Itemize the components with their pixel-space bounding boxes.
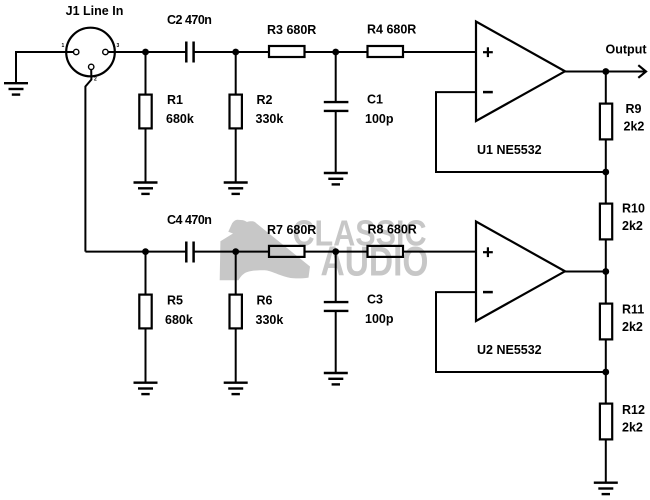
wire pin3 to C2 [108, 51, 186, 53]
wire shield to XLR pin 1 [16, 52, 74, 82]
wire R9 top lead [605, 72, 607, 104]
svg-text:2k2: 2k2 [622, 421, 643, 435]
svg-text:R7 680R: R7 680R [267, 223, 316, 237]
svg-text:R5: R5 [167, 294, 183, 308]
wire C2 to R3 [194, 51, 269, 53]
wire U1 feedback [436, 92, 604, 172]
ground (R5) [134, 383, 158, 394]
label R10 2k2 [622, 202, 645, 234]
svg-text:C2 470n: C2 470n [167, 13, 211, 27]
node junction R10/R11 U2 output [602, 268, 609, 275]
resistor R2 [230, 95, 242, 129]
svg-text:R2: R2 [257, 93, 273, 107]
op-amp U2 [476, 222, 565, 322]
U1 minus input symbol [483, 91, 493, 94]
resistor R10 [600, 204, 612, 240]
node junction R2 [232, 49, 239, 56]
label R12 2k2 [622, 403, 645, 435]
svg-text:R11: R11 [622, 303, 644, 317]
svg-text:100p: 100p [365, 112, 394, 126]
node junction R9/R10 feedback [602, 169, 609, 176]
U2 plus input symbol [483, 247, 493, 257]
resistor R9 [600, 104, 612, 140]
wire R1 top lead [145, 52, 147, 94]
svg-text:2k2: 2k2 [624, 120, 645, 134]
resistor R6 [230, 295, 242, 329]
wire C1 top lead [335, 52, 337, 101]
label C3 100p [365, 293, 394, 327]
ground (C3) [324, 373, 348, 384]
ground (R1) [134, 183, 158, 194]
svg-text:2k2: 2k2 [622, 320, 643, 334]
svg-text:330k: 330k [256, 313, 284, 327]
ground (R12) [594, 483, 618, 494]
capacitor C2 [186, 42, 193, 63]
label R9 2k2 [624, 102, 645, 134]
node junction R11/R12 feedback [602, 369, 609, 376]
svg-text:C1: C1 [367, 93, 383, 107]
output arrow [638, 65, 646, 78]
label C1 100p [365, 93, 394, 127]
wire U2 output [565, 271, 604, 273]
svg-text:2k2: 2k2 [622, 219, 643, 233]
ground (R2) [224, 183, 248, 194]
node junction R5 [142, 248, 149, 255]
wire U1 output [565, 71, 645, 73]
watermark bird logo [220, 220, 310, 281]
wire R9 to R10 [605, 141, 607, 204]
U1 plus input symbol [483, 47, 493, 57]
wire R1 bottom lead [145, 130, 147, 183]
resistor R11 [600, 304, 612, 340]
capacitor C3 [324, 302, 349, 311]
wire U2 feedback [436, 292, 604, 372]
svg-text:Output: Output [606, 43, 648, 57]
resistor R7 [269, 246, 305, 257]
node junction R6 [232, 248, 239, 255]
wire XLR pin 2 down to lower channel [85, 70, 91, 252]
wire lower channel to C4 [85, 251, 186, 253]
wire R7 to R8 [305, 251, 368, 253]
op-amp U1 [476, 22, 565, 122]
wire C3 top lead [335, 252, 337, 301]
wire R5 top lead [145, 252, 147, 294]
wire R11 to R12 [605, 341, 607, 404]
ground (C1) [324, 173, 348, 184]
wire C4 to R7 [194, 251, 269, 253]
connector J1 [66, 28, 115, 77]
svg-text:U2 NE5532: U2 NE5532 [477, 343, 542, 357]
wire R6 top lead [235, 252, 237, 294]
resistor R1 [139, 95, 151, 129]
ground (XLR shield) [4, 83, 28, 94]
svg-text:U1 NE5532: U1 NE5532 [477, 143, 542, 157]
svg-text:R3 680R: R3 680R [267, 23, 316, 37]
svg-text:C3: C3 [367, 293, 383, 307]
svg-text:R1: R1 [167, 93, 183, 107]
wire R2 top lead [235, 52, 237, 94]
label R2 330k [256, 93, 284, 126]
wire R2 bottom lead [235, 130, 237, 183]
ground (R6) [224, 383, 248, 394]
svg-text:2: 2 [94, 77, 97, 83]
wire R3 to R4 [305, 51, 368, 53]
resistor R12 [600, 404, 612, 440]
svg-text:680k: 680k [165, 313, 193, 327]
wire R5 bottom lead [145, 330, 147, 383]
svg-text:100p: 100p [365, 312, 394, 326]
wire C1 bottom lead [335, 112, 337, 173]
wire R6 bottom lead [235, 330, 237, 383]
svg-text:1: 1 [62, 43, 65, 49]
capacitor C1 [324, 102, 349, 111]
svg-text:3: 3 [117, 43, 120, 49]
U2 minus input symbol [483, 291, 493, 294]
wire R8 to U2 + input [403, 251, 476, 253]
resistor R4 [368, 46, 404, 57]
svg-text:R4 680R: R4 680R [367, 23, 416, 37]
svg-text:330k: 330k [256, 112, 284, 126]
resistor R5 [139, 295, 151, 329]
label R11 2k2 [622, 303, 644, 335]
capacitor C4 [186, 242, 193, 263]
node junction C1 [332, 49, 339, 56]
svg-text:R10: R10 [622, 202, 645, 216]
wire R4 to U1 + input [403, 51, 476, 53]
wire R10 to R11 [605, 241, 607, 304]
resistor R8 [368, 246, 404, 257]
resistor R3 [269, 46, 305, 57]
label R6 330k [256, 294, 284, 328]
svg-text:R9: R9 [626, 102, 642, 116]
svg-text:C4 470n: C4 470n [167, 213, 211, 227]
svg-text:R6: R6 [257, 294, 273, 308]
wire R12 to ground [605, 441, 607, 483]
svg-text:J1 Line In: J1 Line In [66, 4, 124, 18]
node junction output/R9 [602, 68, 609, 75]
svg-text:R8 680R: R8 680R [368, 223, 417, 237]
label R5 680k [165, 294, 193, 328]
wire C3 bottom lead [335, 312, 337, 373]
svg-text:680k: 680k [166, 112, 194, 126]
svg-text:R12: R12 [622, 403, 645, 417]
node junction R1 [142, 49, 149, 56]
label R1 680k [166, 93, 194, 126]
node junction C3 [332, 248, 339, 255]
